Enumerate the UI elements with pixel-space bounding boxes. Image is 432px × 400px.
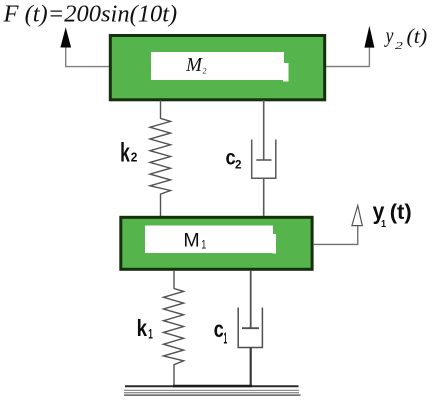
damper c1 rod lower (250, 348, 252, 387)
label y1(t) (373, 198, 412, 229)
damper c1 cylinder (238, 308, 262, 348)
damper c1 piston (242, 327, 259, 329)
spring k2 (150, 100, 171, 217)
ground thick segment between spring and damper rods (173, 385, 252, 388)
svg-text:1: 1 (201, 240, 206, 252)
svg-text:(t): (t) (407, 24, 428, 48)
mass M2 (110, 36, 324, 100)
ground hatch line 3 (124, 394, 301, 396)
svg-text:2: 2 (203, 66, 207, 76)
svg-text:c: c (214, 317, 224, 343)
svg-text:2: 2 (131, 150, 138, 165)
svg-text:k: k (137, 316, 148, 341)
svg-text:k: k (120, 138, 130, 168)
spring k1 (164, 270, 184, 386)
wire from M2 right edge to y2 arrow (326, 48, 370, 67)
arrow y1 (open outline) (352, 206, 362, 226)
label M2 (185, 55, 206, 76)
damper c2 rod lower (263, 178, 265, 217)
svg-text:M: M (183, 230, 199, 251)
damper c2 cylinder (252, 140, 276, 179)
svg-text:(t): (t) (390, 199, 412, 224)
label y2(t) (384, 23, 427, 51)
svg-text:2: 2 (235, 158, 242, 171)
svg-text:y: y (384, 23, 394, 48)
damper c2 piston (256, 159, 271, 161)
svg-text:2: 2 (395, 39, 403, 51)
ground hatch line 1 (124, 389, 299, 391)
svg-text:F (t)=200sin(10t): F (t)=200sin(10t) (3, 0, 178, 27)
damper c1 rod upper (250, 270, 252, 328)
label c2 (225, 146, 241, 171)
wire from M2 left edge to force arrow (66, 48, 110, 67)
ground hatch line 2 (124, 392, 299, 394)
label k1 (137, 316, 154, 342)
force arrow F(t) (60, 27, 71, 47)
svg-text:c: c (225, 146, 235, 169)
label k2 (120, 138, 137, 168)
wire from M1 right edge to y1 arrow (313, 226, 358, 245)
mass M1 (121, 217, 312, 269)
svg-text:1: 1 (381, 218, 386, 229)
svg-text:1: 1 (148, 328, 153, 343)
arrow y2 (364, 26, 374, 48)
damper c2 rod upper (263, 100, 265, 160)
label c1 (214, 317, 228, 348)
label M1 (183, 230, 206, 252)
svg-text:1: 1 (224, 329, 228, 347)
ground top line (125, 385, 299, 387)
svg-text:M: M (185, 55, 203, 76)
